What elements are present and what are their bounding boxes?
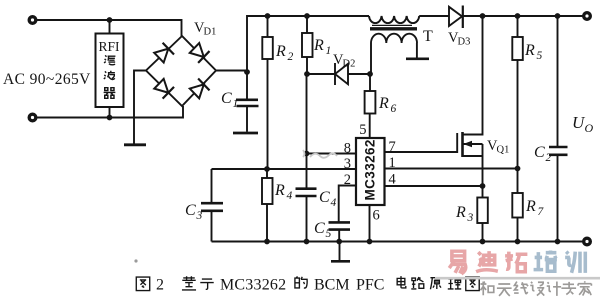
svg-text:C: C — [185, 202, 196, 219]
svg-text:3: 3 — [196, 210, 203, 222]
svg-text:RFI: RFI — [99, 40, 120, 55]
svg-text:1: 1 — [389, 155, 396, 171]
svg-text:5: 5 — [537, 50, 543, 62]
svg-text:3: 3 — [344, 156, 351, 172]
svg-text:7: 7 — [538, 206, 545, 218]
svg-text:MC33262: MC33262 — [220, 277, 286, 294]
svg-text:4: 4 — [389, 172, 397, 188]
svg-text:2: 2 — [156, 277, 164, 294]
svg-text:C: C — [314, 220, 325, 237]
svg-text:O: O — [585, 121, 594, 135]
svg-text:MC33262: MC33262 — [363, 139, 378, 200]
svg-text:5: 5 — [326, 228, 332, 240]
svg-text:R: R — [455, 204, 466, 221]
svg-text:1: 1 — [326, 45, 332, 57]
svg-text:3: 3 — [467, 212, 474, 224]
svg-text:5: 5 — [359, 122, 366, 138]
svg-text:6: 6 — [391, 103, 397, 115]
svg-text:R: R — [525, 198, 536, 215]
svg-text:C: C — [221, 90, 232, 107]
svg-text:8: 8 — [344, 141, 351, 157]
svg-text:D2: D2 — [343, 59, 356, 70]
svg-text:2: 2 — [344, 172, 351, 188]
svg-text:D1: D1 — [204, 27, 217, 38]
svg-text:PFC: PFC — [356, 277, 384, 294]
svg-text:C: C — [319, 189, 330, 206]
svg-text:4: 4 — [287, 190, 293, 202]
svg-text:R: R — [274, 182, 285, 199]
svg-text:R: R — [275, 43, 286, 60]
svg-text:2: 2 — [288, 51, 294, 63]
svg-text:C: C — [534, 144, 545, 161]
svg-text:6: 6 — [373, 208, 380, 224]
svg-text:Q1: Q1 — [497, 145, 510, 156]
svg-text:D3: D3 — [458, 37, 471, 48]
svg-text:R: R — [313, 37, 324, 54]
svg-text:R: R — [378, 95, 389, 112]
svg-text:4: 4 — [331, 197, 337, 209]
svg-text:2: 2 — [546, 152, 552, 164]
svg-text:1: 1 — [233, 98, 239, 110]
svg-text:T: T — [423, 28, 433, 45]
svg-text:AC 90~265V: AC 90~265V — [3, 71, 91, 88]
svg-text:R: R — [524, 42, 535, 59]
svg-text:7: 7 — [389, 139, 396, 155]
svg-text:BCM: BCM — [314, 277, 350, 294]
